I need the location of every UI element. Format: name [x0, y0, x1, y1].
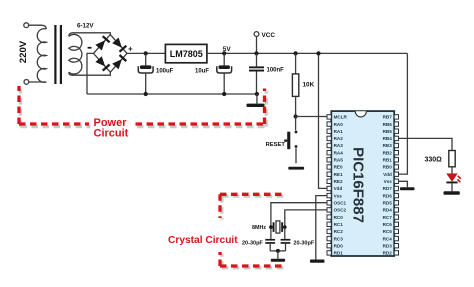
svg-text:10K: 10K [303, 82, 315, 89]
wire bridge positive to regulator input [127, 52, 165, 54]
ground reset [288, 167, 304, 170]
svg-text:Circuit: Circuit [94, 127, 129, 139]
svg-text:RD0: RD0 [334, 243, 344, 248]
ground crystal [271, 259, 285, 262]
svg-text:RB3: RB3 [383, 143, 393, 148]
diode D4 (bottom to right) [112, 55, 126, 69]
svg-text:6-12V: 6-12V [77, 22, 94, 29]
terminal VCC [254, 32, 259, 37]
wire [256, 53, 258, 66]
svg-text:RB7: RB7 [383, 115, 393, 120]
ground Vss right [400, 187, 415, 190]
svg-text:RB1: RB1 [383, 158, 393, 163]
svg-text:10uF: 10uF [195, 69, 209, 75]
capacitor C3 100nF [249, 66, 264, 94]
wire [29, 81, 47, 83]
svg-text:LM7805: LM7805 [170, 49, 203, 59]
node junction 10K top [294, 51, 298, 55]
node junction 10uF bottom [222, 92, 226, 96]
svg-text:RC3: RC3 [334, 236, 344, 241]
svg-text:RD4: RD4 [383, 208, 393, 213]
transformer T1 secondary winding [69, 34, 82, 74]
IC U1 PIC16F887 [331, 111, 394, 256]
regulator U2 LM7805 [165, 44, 207, 62]
wire secondary top to bridge AC1 [69, 33, 111, 37]
svg-text:RA1: RA1 [334, 129, 344, 134]
capacitor C2 10uF [217, 53, 232, 94]
IC U1 pin boxes left [327, 115, 331, 255]
diode D3 (left to bottom) [95, 56, 109, 70]
svg-text:PIC16F887: PIC16F887 [350, 147, 367, 223]
svg-text:20-30pF: 20-30pF [293, 241, 314, 247]
svg-text:RE0: RE0 [334, 165, 343, 170]
wire [29, 25, 47, 29]
svg-text:Vss: Vss [334, 193, 343, 198]
svg-text:8MHz: 8MHz [252, 225, 266, 231]
wire [451, 183, 453, 191]
svg-text:RD3: RD3 [383, 243, 393, 248]
wire secondary bottom to bridge AC2 [69, 72, 111, 75]
label minus [88, 47, 92, 49]
node junction VCC rail [254, 51, 258, 55]
wire [256, 94, 258, 104]
ground power rail [247, 104, 265, 107]
svg-text:Vdd: Vdd [383, 172, 392, 177]
svg-text:RD5: RD5 [383, 201, 393, 206]
wire [451, 167, 453, 174]
LED D5 [446, 174, 460, 184]
ground LED [444, 191, 460, 195]
node junction 100uF top [144, 51, 148, 55]
wire [277, 251, 279, 259]
wire Vdd left pin to 5V rail [319, 53, 328, 188]
svg-text:220V: 220V [18, 40, 29, 63]
node junction 100uF bottom [144, 92, 148, 96]
node junction Vdd rail [316, 51, 320, 55]
svg-text:RA5: RA5 [334, 158, 344, 163]
wire OSC2 [285, 210, 328, 239]
svg-text:RB2: RB2 [383, 150, 393, 155]
svg-text:RC5: RC5 [383, 229, 393, 234]
transformer T1 primary winding [37, 29, 46, 83]
wire Vss right pin to ground [399, 181, 408, 187]
svg-text:RA3: RA3 [334, 143, 344, 148]
svg-text:RESET: RESET [266, 142, 286, 148]
resistor R1 10K [292, 53, 298, 116]
wire [145, 53, 147, 65]
svg-text:Vdd: Vdd [334, 186, 343, 191]
svg-text:RC1: RC1 [334, 222, 344, 227]
diode D1 (left to top) [95, 36, 109, 50]
bridge rectifier diamond [94, 35, 128, 73]
annotation crystal circuit dashed bracket [220, 194, 286, 267]
svg-text:330Ω: 330Ω [425, 156, 443, 163]
svg-text:Crystal Circuit: Crystal Circuit [168, 235, 238, 246]
svg-text:RC2: RC2 [334, 229, 344, 234]
svg-text:RC4: RC4 [383, 236, 393, 241]
svg-text:RD6: RD6 [383, 193, 393, 198]
transformer T1 core [54, 25, 56, 84]
transformer T1 primary terminal top [24, 23, 29, 28]
diode D2 (top to right) [112, 38, 126, 52]
IC U1 pin labels left [334, 115, 348, 256]
transformer T1 primary terminal bottom [24, 80, 29, 85]
svg-text:Vss: Vss [384, 179, 393, 184]
svg-text:RE1: RE1 [334, 172, 343, 177]
capacitor C5 20-30pF right [281, 239, 291, 251]
svg-text:RC6: RC6 [383, 222, 393, 227]
node junction 10uF top [222, 51, 226, 55]
wire bridge negative to bottom rail [87, 53, 94, 94]
svg-text:RD7: RD7 [383, 186, 393, 191]
capacitor C4 20-30pF left [265, 239, 275, 251]
svg-text:RB5: RB5 [383, 129, 393, 134]
resistor R2 330ohm [449, 151, 455, 167]
svg-text:RD1: RD1 [334, 251, 344, 256]
svg-text:RA0: RA0 [334, 122, 344, 127]
svg-text:RB4: RB4 [383, 136, 393, 141]
IC U1 pin labels right [383, 115, 393, 256]
svg-text:RC0: RC0 [334, 215, 344, 220]
wire Vdd right pin to 5V rail [399, 53, 408, 174]
wire bottom rail [87, 93, 257, 95]
wire Vss left pin to ground [316, 196, 328, 260]
wire MCLR [296, 116, 328, 118]
svg-text:RE2: RE2 [334, 179, 343, 184]
annotation power circuit dashed bracket [19, 86, 266, 127]
node junction bottom rail end [255, 92, 259, 96]
svg-text:20-30pF: 20-30pF [242, 241, 263, 247]
node junction MCLR [294, 114, 298, 118]
wire RB4 to resistor [399, 138, 452, 150]
crystal X1 8MHz [269, 221, 287, 233]
svg-text:RD2: RD2 [383, 251, 393, 256]
svg-text:VCC: VCC [262, 32, 276, 39]
svg-text:RB6: RB6 [383, 122, 393, 127]
ground Vss left [310, 260, 325, 263]
switch RESET [284, 117, 297, 164]
svg-text:+: + [128, 45, 133, 54]
capacitor C1 100uF [138, 65, 153, 94]
wire OSC1 [271, 203, 327, 239]
svg-text:RB0: RB0 [383, 165, 393, 170]
svg-text:RA2: RA2 [334, 136, 344, 141]
svg-text:RA4: RA4 [334, 150, 344, 155]
node junction crystal ground [276, 249, 280, 253]
IC U1 pin boxes right [394, 115, 398, 255]
svg-text:100uF: 100uF [156, 69, 174, 75]
wire regulator output [207, 52, 408, 54]
svg-text:MCLR: MCLR [334, 115, 348, 120]
svg-text:100nF: 100nF [267, 68, 285, 74]
svg-text:OSC1: OSC1 [334, 201, 347, 206]
svg-text:RC7: RC7 [383, 215, 393, 220]
wire VCC to rail [256, 36, 258, 53]
svg-text:OSC2: OSC2 [334, 208, 347, 213]
wire crystal caps common [270, 250, 285, 252]
